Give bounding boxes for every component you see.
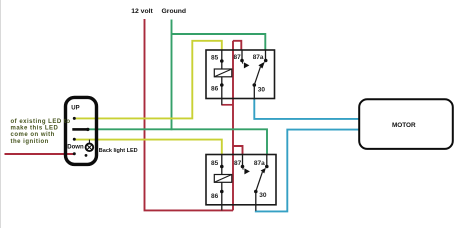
relay U1 pin 87 stub: [241, 50, 243, 61]
relay U1 box: [206, 50, 275, 99]
wire: green ground vertical: [171, 20, 173, 131]
wire: green branch to relay1 pin 87a: [172, 34, 266, 51]
svg-text:the ignition: the ignition: [11, 139, 49, 145]
wire: red relay column vertical: [232, 41, 234, 211]
wire: red branch to relay2 pin 87: [233, 146, 243, 155]
svg-text:UP: UP: [71, 105, 79, 111]
relay U2 pin 87a terminal dot: [265, 165, 269, 169]
svg-text:make this LED: make this LED: [11, 126, 59, 132]
svg-text:85: 85: [211, 55, 219, 62]
svg-text:86: 86: [211, 85, 219, 92]
svg-text:Back light LED: Back light LED: [99, 148, 138, 154]
svg-text:86: 86: [211, 193, 219, 200]
wire: red stub relay1 pin 86 to red column: [221, 104, 233, 106]
svg-text:30: 30: [258, 87, 266, 94]
relay U1 pin 87 terminal dot: [240, 59, 244, 63]
svg-text:12 volt: 12 volt: [131, 8, 153, 15]
switch common terminal dot: [86, 128, 89, 131]
svg-text:87: 87: [234, 54, 242, 61]
page left edge: [0, 0, 2, 228]
switch Down terminal dot: [73, 152, 76, 155]
svg-text:87: 87: [234, 160, 242, 167]
relay U2 pin 30 terminal dot: [254, 190, 258, 194]
relay U2 pin 87 contact arrow: [242, 167, 245, 170]
relay U2 pin 87 terminal dot: [241, 165, 245, 169]
relay U2 pin 86 stub: [221, 182, 223, 210]
relay U2 changeover arm: [256, 172, 263, 192]
relay U1 pin 30 stub: [253, 85, 255, 100]
switch middle terminal dot: [73, 138, 76, 141]
relay U2 box: [206, 155, 276, 205]
relay U1 coil: [214, 69, 232, 77]
relay U1 pin 30 terminal dot: [253, 83, 257, 87]
svg-text:Ground: Ground: [162, 8, 187, 15]
wire: red branch to relay1 pin 87: [233, 41, 241, 51]
wire: red ignition feed to switch Down terminal: [5, 153, 75, 155]
relay U2 pin 30 stub: [255, 192, 257, 211]
switch S1 body: [66, 97, 97, 164]
svg-text:30: 30: [259, 192, 267, 199]
relay U2 pin 87 stub: [242, 155, 244, 167]
switch backlight lamp: [88, 140, 90, 144]
svg-text:MOTOR: MOTOR: [392, 122, 416, 129]
relay U2 pin 86 terminal dot: [220, 190, 224, 194]
svg-text:come on with: come on with: [11, 132, 55, 138]
motor M1 body: [359, 99, 453, 149]
svg-text:of existing LED to: of existing LED to: [11, 119, 71, 125]
wire: cyan relay2 pin30 to motor: [256, 130, 360, 212]
wire: yellow Down wire to relay2 pin 85: [74, 140, 222, 155]
svg-text:87a: 87a: [253, 54, 264, 61]
svg-text:87a: 87a: [254, 160, 265, 167]
relay U2 pin 85 terminal dot: [220, 165, 224, 169]
relay U1 pin 85 terminal dot: [220, 59, 224, 63]
relay U2 pin 85 stub: [221, 155, 223, 175]
switch rocker bar: [72, 128, 88, 131]
wire: cyan relay1 pin30 to motor: [254, 99, 359, 119]
wire: yellow UP wire to relay1 pin 85: [74, 41, 222, 119]
relay U1 changeover arm: [254, 67, 260, 85]
switch lamp terminal dot: [85, 154, 88, 157]
relay U1 pin 86 terminal dot: [220, 83, 224, 87]
svg-text:Down: Down: [67, 144, 84, 150]
relay U2 pin 87a stub: [266, 155, 268, 167]
relay U2 coil: [214, 175, 232, 183]
switch UP terminal dot: [73, 117, 76, 120]
relay U1 pin 87 contact arrow: [241, 61, 244, 64]
svg-text:85: 85: [211, 160, 219, 167]
relay U1 pin 87a stub: [265, 50, 267, 61]
relay U1 pin 85 stub: [221, 50, 223, 69]
relay U1 pin 86 stub: [221, 77, 223, 105]
relay U1 pin 87a terminal dot: [264, 59, 268, 63]
wire: red 12V feed vertical: [145, 19, 234, 210]
wire: green switch common to relay2 pin 87a: [88, 129, 267, 155]
